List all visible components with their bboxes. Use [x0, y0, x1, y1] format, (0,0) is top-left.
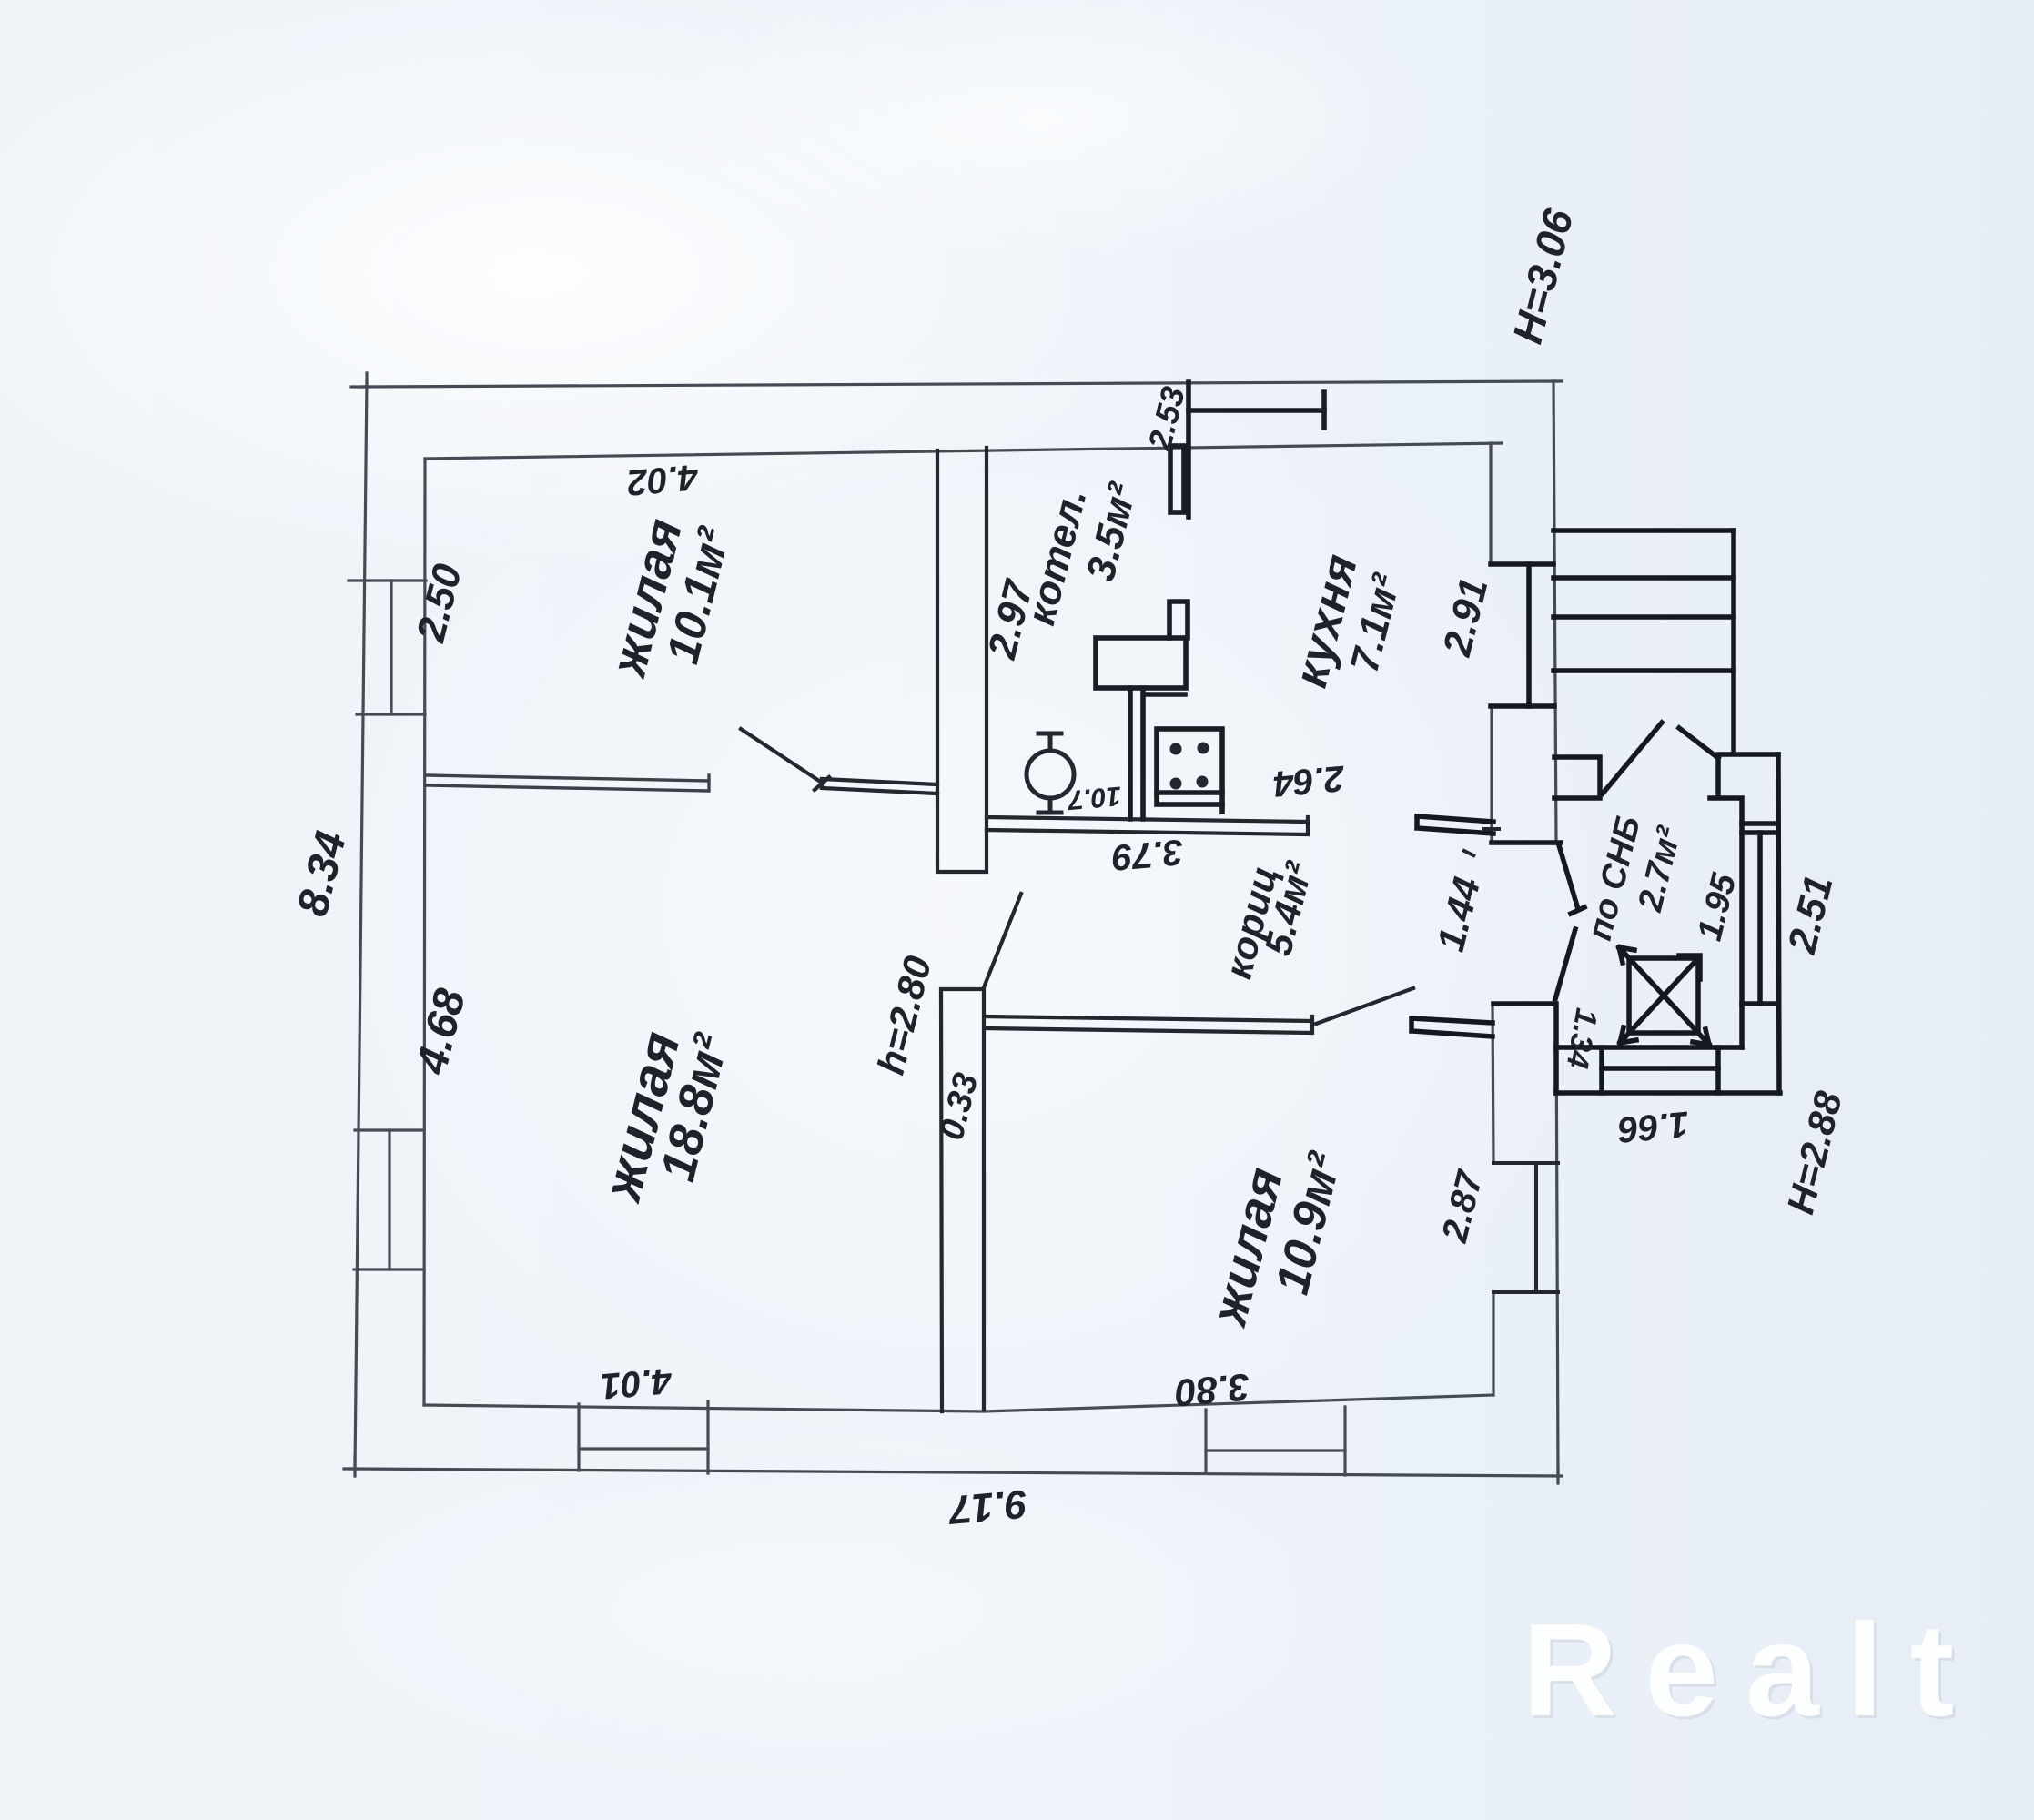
window W5 mid line: [1526, 564, 1532, 706]
window W6 right lower ticks: [1493, 1163, 1558, 1292]
wall F corridor bottom double line: [985, 1016, 1312, 1033]
inner wall bottom: [424, 1395, 1493, 1411]
inner wall right seg3: [1493, 1004, 1493, 1163]
tambour outer right wall: [1778, 754, 1779, 1093]
boiler top notch: [1169, 602, 1188, 638]
window W3 bottom ticks: [579, 1401, 708, 1473]
wall A room10.1 bottom double line: [426, 775, 709, 791]
outer wall left: [355, 380, 367, 1469]
window W1 mid line: [390, 581, 392, 714]
boiler rectangle: [1096, 638, 1186, 688]
outer wall bottom: [351, 1469, 1562, 1476]
hatch square: [1629, 958, 1698, 1033]
canopy gable left: [1603, 723, 1662, 794]
door top jamb: [1492, 840, 1561, 845]
wall G corridor bottom right piece: [1412, 1018, 1493, 1036]
inner wall top: [425, 443, 1502, 459]
tambour left pillar: [1554, 757, 1600, 798]
svg-text:3.79: 3.79: [1110, 832, 1185, 878]
svg-text:1.66: 1.66: [1616, 1104, 1691, 1150]
stove square: [1157, 729, 1222, 804]
svg-text:Realt: Realt: [1523, 1596, 1982, 1744]
outer wall right lower: [1556, 1004, 1558, 1476]
tambour bottom outer: [1556, 1090, 1780, 1096]
window W3 mid line: [579, 1447, 708, 1450]
svg-text:2.64: 2.64: [1271, 758, 1346, 804]
hatch corner bracket: [1679, 955, 1700, 979]
dim line 2.53: [1189, 408, 1324, 413]
house right wall behind tambour: [1553, 1004, 1559, 1093]
tambour window W8 mid: [1602, 1066, 1718, 1071]
dim tick vertical 2.53 left: [1186, 382, 1191, 517]
wall D boiler-room bottom double line: [987, 817, 1308, 834]
stairs treads: [1553, 531, 1734, 671]
window W4 mid line: [1206, 1449, 1345, 1451]
door leaf upper: [1559, 845, 1584, 914]
corner overshoots: [344, 373, 1562, 1483]
wall A jamb piece: [822, 779, 937, 794]
flue double line: [1130, 688, 1143, 819]
wall B central upper: [937, 448, 987, 872]
water heater symbol: [1027, 733, 1074, 813]
outer wall top: [362, 381, 1557, 387]
outer wall right upper: [1553, 381, 1556, 843]
canopy gable right: [1679, 728, 1718, 758]
tambour right pillar: [1710, 754, 1778, 824]
window W2 mid line: [388, 1130, 390, 1269]
svg-text:3.80: 3.80: [1173, 1366, 1251, 1415]
window W5 kitchen right ticks: [1491, 564, 1554, 706]
svg-text:4.01: 4.01: [599, 1360, 673, 1407]
hatch diagonal 2 with arrow: [1620, 958, 1698, 1043]
inner wall right seg1 kitchen: [1489, 443, 1492, 564]
svg-text:4.02: 4.02: [625, 457, 700, 503]
window W1 left upper ticks: [349, 581, 426, 714]
dim tick 2.53 right: [1321, 392, 1327, 428]
wall C central lower: [941, 989, 984, 1411]
tambour inner right wall: [1739, 824, 1745, 1047]
door leaf lower: [1555, 929, 1575, 999]
small dash near 1.44: [1462, 850, 1475, 856]
window W4 bottom ticks: [1206, 1407, 1345, 1475]
svg-text:9.17: 9.17: [946, 1481, 1029, 1532]
stairs right edge: [1731, 531, 1736, 753]
door leaf corridor-room18.8: [984, 894, 1021, 987]
tambour window W7 ticks: [1742, 833, 1778, 1004]
tambour bottom inner: [1556, 1045, 1742, 1050]
door hinge tick room10.1: [815, 777, 829, 790]
vent duct rect: [1170, 446, 1184, 512]
tambour window W8 ticks: [1602, 1047, 1718, 1093]
inner wall left: [424, 459, 425, 1405]
hatch diagonal 1 with arrows: [1619, 947, 1709, 1045]
small tick on inner right wall: [1482, 827, 1501, 831]
window W2 left lower ticks: [354, 1130, 424, 1269]
window W6 mid line: [1534, 1163, 1538, 1292]
svg-text:10.7: 10.7: [1066, 781, 1122, 815]
door leaf corridor-room10.9: [1316, 988, 1413, 1024]
inner wall right seg4: [1492, 1292, 1494, 1395]
inner wall right seg2: [1490, 706, 1493, 843]
tambour window W7 mid: [1757, 833, 1763, 1004]
wall E kitchen bottom right piece: [1417, 816, 1493, 834]
door bottom jamb: [1493, 1001, 1553, 1006]
stove burners: [1170, 743, 1209, 790]
door leaf room10.1: [741, 729, 822, 783]
stove inner bottom line: [1157, 793, 1222, 812]
boiler bottom extra line: [1145, 692, 1185, 697]
